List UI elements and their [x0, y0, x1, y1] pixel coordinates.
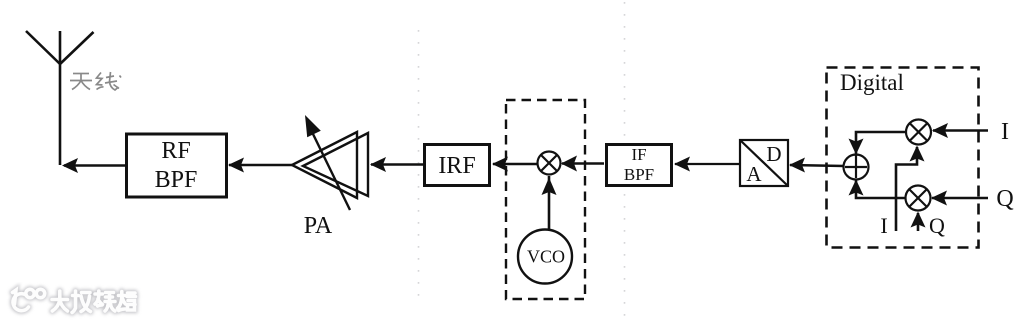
mixer lower	[906, 186, 931, 211]
svg-text:A: A	[746, 162, 762, 186]
antenna label 天线	[70, 72, 121, 90]
RF BPF box	[127, 134, 227, 197]
wire summer to D/A	[790, 165, 844, 166]
wire upper mixer to summer	[856, 132, 906, 156]
antenna	[26, 31, 94, 165]
mixer upper	[906, 120, 931, 145]
VCO oscillator	[518, 230, 572, 284]
D/A converter	[740, 140, 788, 186]
wire VCO to mixer	[548, 176, 551, 229]
wire Q input	[932, 197, 988, 200]
faint dotted guide line right	[624, 2, 626, 319]
wire PA to RF BPF	[229, 164, 293, 167]
svg-text:Q: Q	[929, 213, 945, 238]
svg-text:PA: PA	[304, 213, 333, 239]
Digital dashed box	[827, 68, 979, 248]
wire IRF to PA	[371, 163, 423, 166]
svg-text:Digital: Digital	[840, 70, 904, 95]
IRF box	[425, 145, 490, 186]
svg-text:IRF: IRF	[438, 153, 475, 179]
wire Q local oscillator path	[917, 213, 920, 231]
amplifier PA	[292, 132, 368, 210]
svg-text:I: I	[1001, 119, 1009, 145]
wire lower mixer to summer	[856, 180, 906, 198]
wire IF BPF to mixer	[562, 162, 604, 165]
svg-text:IF: IF	[631, 145, 646, 164]
wire I input	[933, 129, 988, 132]
IF BPF box	[607, 145, 672, 186]
wire RF BPF to antenna	[64, 164, 125, 167]
wire I local oscillator path	[896, 147, 917, 231]
svg-text:D: D	[766, 142, 781, 166]
wire mixer to IRF	[493, 163, 538, 166]
summer S1	[844, 155, 869, 180]
svg-text:I: I	[880, 213, 887, 238]
mixer M1	[538, 152, 561, 175]
svg-text:RF: RF	[161, 138, 190, 164]
wire D/A to IF BPF	[675, 163, 739, 165]
svg-text:BPF: BPF	[624, 165, 654, 184]
svg-text:VCO: VCO	[527, 247, 565, 267]
faint dotted guide line left	[418, 30, 420, 305]
svg-text:Q: Q	[996, 186, 1013, 212]
svg-text:BPF: BPF	[155, 167, 198, 193]
VCO dashed box	[506, 100, 585, 299]
